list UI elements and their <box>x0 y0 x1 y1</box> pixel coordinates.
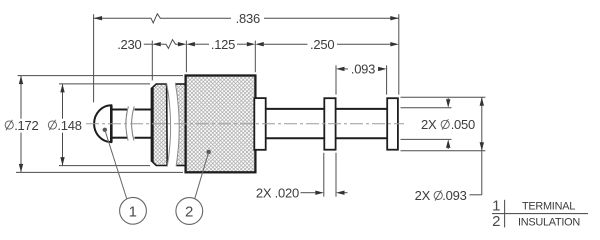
svg-text:.230: .230 <box>117 37 141 52</box>
extension line collar bottom (2X dia .093) <box>401 150 486 152</box>
extension line collar top (2X dia .093) <box>401 96 486 98</box>
dimension 2X dia .050 <box>421 98 475 149</box>
balloon 2 <box>176 198 203 225</box>
dimension .230 <box>117 37 186 52</box>
svg-text:2: 2 <box>185 204 193 221</box>
break lines in shaft <box>126 107 134 141</box>
extension line part right end <box>398 14 400 94</box>
svg-text:INSULATION: INSULATION <box>518 216 580 228</box>
terminal shaft right segment 1 <box>266 109 325 138</box>
terminal shaft right segment 2 <box>336 109 388 138</box>
dimension .250 <box>255 37 398 52</box>
svg-text:.250: .250 <box>310 37 334 52</box>
svg-text:.125: .125 <box>211 37 235 52</box>
extension line collar C3 left <box>386 65 388 94</box>
balloon 2 leader <box>195 150 211 199</box>
svg-text:.050: .050 <box>451 117 475 132</box>
svg-text:.836: .836 <box>236 11 260 26</box>
balloon 1 <box>120 197 147 224</box>
svg-text:2X: 2X <box>415 188 431 203</box>
extension line flange bottom (diameter .148) <box>59 165 150 167</box>
dimension 2X dia .093 <box>415 97 484 203</box>
dimension dia .148 <box>48 84 81 166</box>
collar tab at block face <box>254 98 265 150</box>
extension line dome tip <box>93 14 95 102</box>
svg-text:.172: .172 <box>14 118 38 133</box>
centerline <box>86 123 404 125</box>
dimension .093 <box>336 62 387 77</box>
extension line shaft bottom (2X dia .050) <box>401 138 452 140</box>
svg-text:.093: .093 <box>442 188 466 203</box>
svg-text:2X: 2X <box>421 117 437 132</box>
extension line block right face <box>254 41 256 73</box>
dimension dia .172 <box>5 76 38 173</box>
svg-text:2: 2 <box>492 213 500 230</box>
collar C3 at end <box>387 98 398 150</box>
extension line collar C2 right <box>335 65 337 94</box>
legend table <box>492 197 588 230</box>
svg-text:.093: .093 <box>351 62 375 77</box>
svg-text:1: 1 <box>129 203 137 220</box>
dimension .125 <box>186 37 255 52</box>
extension line shaft top (2X dia .050) <box>401 107 452 109</box>
extension line collar C2 right (2X .020) <box>335 153 337 197</box>
svg-text:TERMINAL: TERMINAL <box>522 200 575 212</box>
svg-text:2X .020: 2X .020 <box>256 185 299 200</box>
svg-text:.148: .148 <box>57 118 81 133</box>
insulation body block (hatched) <box>186 76 256 173</box>
extension line block bottom (diameter .172) <box>16 171 183 173</box>
extension line collar C2 left (2X .020) <box>323 153 325 197</box>
extension line block left face <box>185 41 187 73</box>
insulation flange (hatched, broken view) <box>152 84 186 166</box>
terminal shaft left (broken view) <box>113 110 152 138</box>
dimension .836 <box>94 11 399 26</box>
extension line block top (diameter .172) <box>18 75 184 77</box>
extension line flange left face <box>151 41 153 81</box>
collar C2 <box>324 98 335 150</box>
dimension 2X .020 <box>256 185 348 200</box>
plunger dome tip <box>94 105 111 142</box>
svg-text:1: 1 <box>492 197 500 214</box>
break lines in flange <box>167 83 180 166</box>
extension line flange top (diameter .148) <box>59 83 150 85</box>
balloon 1 leader <box>103 128 127 199</box>
